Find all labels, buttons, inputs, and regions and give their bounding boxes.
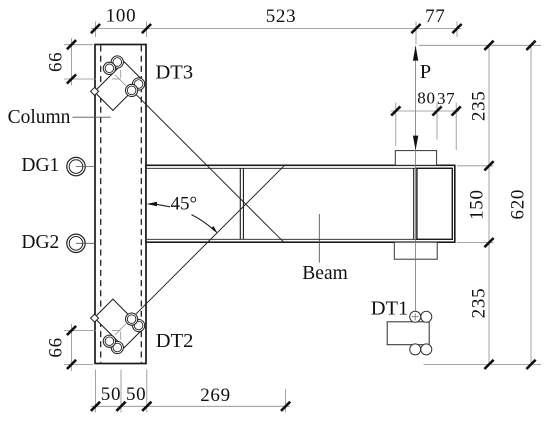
svg-text:Beam: Beam (302, 263, 347, 284)
diagonal line from DT2 to beam top (127, 166, 284, 323)
dial gauge DG2 (67, 234, 85, 252)
svg-text:50: 50 (101, 384, 121, 405)
svg-text:620: 620 (507, 189, 528, 220)
svg-text:77: 77 (425, 6, 445, 27)
top dimension extension stubs (96, 22, 458, 45)
top extension line from P (419, 44, 541, 46)
column (95, 45, 146, 364)
diagonal line from DT3 to beam bottom (127, 85, 284, 242)
DT3 roller upper pair (111, 56, 123, 68)
beam stiffener pair left (240, 168, 243, 239)
dial gauge DG1 (67, 157, 85, 175)
DT3 center marks (112, 70, 126, 86)
left 66 top dimension (71, 38, 73, 86)
beam bottom flange inner line (147, 238, 453, 240)
transducer DT3 plate (94, 62, 143, 111)
beam top flange inner line (147, 167, 453, 169)
ticks on right dimension lines (484, 41, 493, 369)
svg-text:DG2: DG2 (21, 232, 59, 253)
svg-text:DT3: DT3 (156, 62, 194, 84)
svg-text:66: 66 (45, 337, 66, 357)
top loading plate (395, 151, 436, 166)
bottom plate (394, 242, 437, 259)
DT1 rollers (410, 311, 421, 322)
bottom dimension line 50 50 269 (91, 405, 290, 407)
svg-text:80: 80 (417, 89, 435, 108)
top dimension line (91, 28, 461, 30)
svg-text:DT1: DT1 (371, 297, 409, 319)
svg-text:150: 150 (466, 189, 487, 220)
DT2 center marks (112, 324, 126, 340)
DT2 pivot diamond (91, 314, 99, 322)
right dimension line 235 150 235 (488, 45, 490, 364)
beam edge extension stubs right (457, 166, 494, 243)
svg-text:66: 66 (45, 52, 66, 72)
load P up arrowhead (413, 46, 418, 61)
svg-text:235: 235 (468, 90, 489, 121)
svg-text:100: 100 (106, 6, 137, 27)
load line P shaft (415, 46, 417, 312)
left 66 bottom dimension (71, 324, 73, 371)
svg-text:DT2: DT2 (156, 330, 194, 352)
svg-text:45°: 45° (171, 193, 198, 214)
DT3 roller lower pair (133, 78, 145, 90)
svg-text:Column: Column (8, 107, 71, 128)
right overall dimension line 620 (530, 45, 532, 364)
45 degree angle annotation (147, 202, 157, 206)
column flange dashed line right (140, 46, 142, 363)
bottom extension line (424, 363, 542, 365)
svg-text:37: 37 (437, 89, 455, 108)
svg-text:523: 523 (266, 6, 297, 27)
transducer DT1 body (387, 322, 429, 345)
svg-text:DG1: DG1 (21, 155, 59, 176)
DT1 cross mark (412, 313, 419, 320)
svg-text:269: 269 (200, 385, 231, 406)
beam (146, 165, 455, 242)
beam stiffener line at load point (413, 168, 415, 239)
transducer DT2 plate (94, 299, 143, 348)
svg-text:50: 50 (126, 384, 146, 405)
load down arrowhead on plate (413, 136, 418, 151)
DT2 roller lower pair (111, 341, 123, 353)
column flange dashed line left (100, 46, 102, 363)
80 37 dimension (391, 110, 460, 112)
beam right end cell (417, 168, 452, 239)
top dimension ticks (91, 24, 462, 33)
svg-text:P: P (420, 61, 431, 83)
DT3 pivot diamond (91, 87, 99, 95)
DT2 roller upper pair (133, 319, 145, 331)
svg-text:235: 235 (468, 288, 489, 319)
